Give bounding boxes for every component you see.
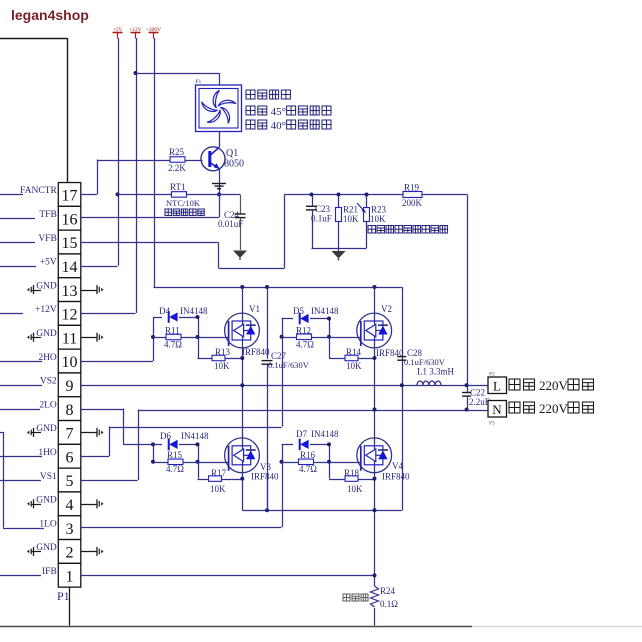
- svg-text:V1: V1: [249, 304, 260, 314]
- svg-text:IRF840: IRF840: [242, 347, 270, 357]
- svg-text:2LO: 2LO: [39, 400, 57, 410]
- svg-text:+12V: +12V: [35, 305, 57, 315]
- svg-text:F1: F1: [196, 79, 202, 85]
- svg-text:4.7Ω: 4.7Ω: [166, 464, 184, 474]
- svg-text:8050: 8050: [224, 159, 244, 170]
- svg-text:16: 16: [62, 211, 78, 228]
- svg-text:2: 2: [66, 545, 74, 562]
- svg-text:4.7Ω: 4.7Ω: [164, 340, 182, 350]
- svg-text:220V: 220V: [539, 401, 569, 416]
- svg-text:10K: 10K: [347, 484, 363, 494]
- svg-text:TFB: TFB: [39, 210, 56, 220]
- svg-text:15: 15: [62, 235, 78, 252]
- svg-text:+300V: +300V: [146, 27, 161, 33]
- svg-text:10K: 10K: [346, 361, 362, 371]
- svg-text:V3: V3: [260, 462, 271, 472]
- svg-text:IN4148: IN4148: [180, 306, 208, 316]
- svg-text:P2: P2: [489, 372, 495, 378]
- svg-text:14: 14: [62, 259, 78, 276]
- svg-text:1: 1: [66, 568, 74, 585]
- svg-text:N: N: [492, 402, 502, 417]
- svg-text:10K: 10K: [343, 214, 359, 224]
- svg-text:7: 7: [66, 426, 74, 443]
- svg-text:10K: 10K: [210, 484, 226, 494]
- svg-text:45°: 45°: [271, 106, 286, 118]
- svg-text:L: L: [493, 379, 501, 394]
- svg-text:IRF840: IRF840: [251, 472, 279, 482]
- svg-text:D5: D5: [293, 306, 304, 316]
- svg-text:0.1uF: 0.1uF: [311, 214, 332, 224]
- svg-text:D6: D6: [160, 431, 171, 441]
- svg-text:C23: C23: [315, 204, 331, 214]
- svg-text:P3: P3: [489, 421, 495, 427]
- svg-text:0.1uF/630V: 0.1uF/630V: [404, 357, 446, 367]
- svg-text:0.1uF/630V: 0.1uF/630V: [268, 360, 310, 370]
- svg-text:12: 12: [62, 307, 78, 324]
- svg-text:5: 5: [66, 473, 74, 490]
- svg-text:Q1: Q1: [226, 148, 238, 159]
- svg-text:V4: V4: [392, 461, 403, 471]
- svg-text:4.7Ω: 4.7Ω: [299, 464, 317, 474]
- svg-text:FANCTR: FANCTR: [20, 186, 57, 196]
- svg-text:R21: R21: [343, 205, 358, 215]
- svg-text:D7: D7: [296, 429, 307, 439]
- svg-text:R17: R17: [211, 468, 227, 478]
- svg-text:IN4148: IN4148: [311, 429, 339, 439]
- svg-text:C22: C22: [470, 388, 485, 398]
- svg-text:4.7Ω: 4.7Ω: [296, 340, 314, 350]
- svg-text:200K: 200K: [402, 198, 423, 208]
- svg-text:13: 13: [62, 283, 78, 300]
- svg-text:RT1: RT1: [170, 182, 185, 192]
- svg-text:IN4148: IN4148: [181, 431, 209, 441]
- svg-text:IN4148: IN4148: [311, 306, 339, 316]
- svg-text:2.2uF: 2.2uF: [469, 397, 490, 407]
- svg-text:IRF840: IRF840: [382, 472, 410, 482]
- svg-text:10K: 10K: [214, 361, 230, 371]
- svg-text:P1: P1: [57, 589, 70, 603]
- svg-text:NTC/10K: NTC/10K: [166, 198, 201, 208]
- svg-text:+5V: +5V: [40, 258, 57, 268]
- svg-text:8: 8: [66, 402, 74, 419]
- svg-text:3: 3: [66, 521, 74, 538]
- svg-text:4: 4: [66, 497, 74, 514]
- svg-text:VFB: VFB: [38, 234, 56, 244]
- svg-text:R14: R14: [346, 347, 362, 357]
- svg-text:R23: R23: [371, 205, 387, 215]
- svg-text:V2: V2: [381, 304, 392, 314]
- svg-text:R18: R18: [344, 468, 360, 478]
- svg-text:10: 10: [62, 354, 78, 371]
- svg-text:D4: D4: [159, 306, 170, 316]
- svg-text:6: 6: [66, 449, 74, 466]
- svg-text:R25: R25: [169, 147, 185, 157]
- svg-text:17: 17: [62, 188, 78, 205]
- svg-text:L1 3.3mH: L1 3.3mH: [417, 367, 454, 377]
- svg-text:10K: 10K: [370, 214, 386, 224]
- svg-text:40°: 40°: [271, 120, 286, 132]
- svg-text:legan4shop: legan4shop: [11, 7, 89, 23]
- svg-text:9: 9: [66, 378, 74, 395]
- svg-text:0.1Ω: 0.1Ω: [380, 599, 398, 609]
- svg-text:2.2K: 2.2K: [168, 163, 186, 173]
- svg-text:+5V: +5V: [113, 27, 123, 33]
- svg-text:220V: 220V: [539, 378, 569, 393]
- svg-text:VS2: VS2: [40, 377, 57, 387]
- svg-text:VS1: VS1: [40, 472, 57, 482]
- svg-text:R13: R13: [215, 347, 231, 357]
- svg-text:11: 11: [62, 330, 77, 347]
- svg-text:0.01uF: 0.01uF: [218, 219, 243, 229]
- svg-text:IFB: IFB: [42, 567, 57, 577]
- svg-text:+12V: +12V: [129, 27, 142, 33]
- svg-text:R24: R24: [380, 586, 396, 596]
